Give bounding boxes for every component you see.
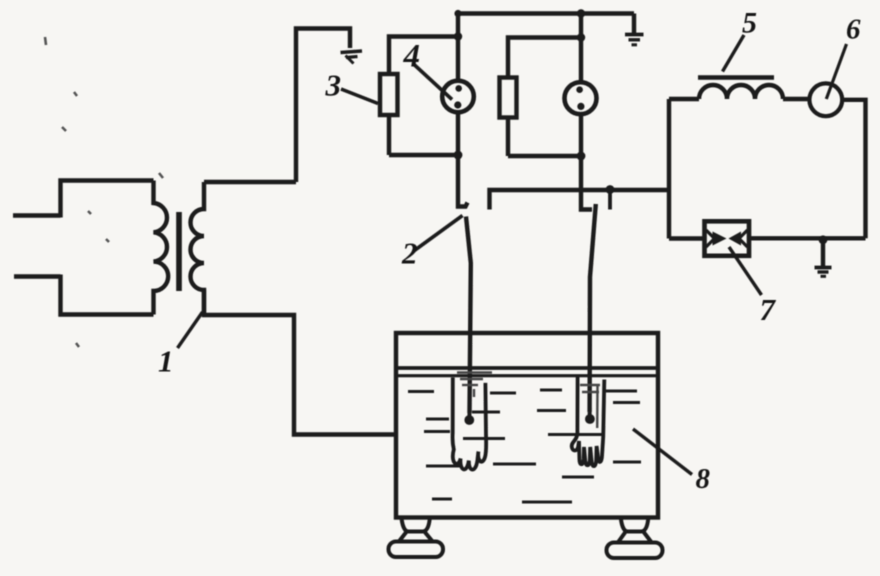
label 7 — [760, 292, 777, 327]
wire right-loop top left segment — [669, 97, 699, 101]
label pointer 3 — [341, 89, 378, 104]
resistor R2 — [500, 78, 517, 118]
resistor R1 (3) — [380, 74, 398, 115]
wire between coil and meter — [783, 97, 809, 101]
ground (transformer side) — [341, 51, 363, 64]
glove G1 (left) outline — [453, 378, 487, 470]
meter P1 (6) — [809, 83, 842, 116]
wire electrode in glove G2 — [588, 412, 592, 415]
svg-text:7: 7 — [760, 292, 777, 327]
svg-text:3: 3 — [325, 68, 342, 103]
label 4 — [403, 39, 421, 75]
switch S2 blade and wire to tank — [590, 204, 596, 412]
spark gap F1 arrows — [706, 230, 748, 247]
ground (right loop) — [815, 268, 832, 277]
glove G2 (right) outline — [572, 376, 605, 466]
spark gap F1 (7) box — [705, 221, 750, 256]
wire right-loop left side — [667, 99, 671, 239]
wire primary loop left/top/bottom — [61, 181, 154, 315]
tank (8) body — [396, 333, 658, 518]
tank foot right flare — [618, 531, 653, 544]
electrode dot G2 — [585, 414, 595, 424]
tank foot left dome — [402, 518, 430, 532]
label 1 — [158, 344, 174, 379]
lamp HL1 electrode dots — [454, 85, 462, 109]
wire right-loop bottom right segment — [749, 236, 866, 240]
label 2 — [401, 236, 418, 271]
wire R1 parallel loop — [389, 37, 458, 156]
inductor L1 (5) — [699, 85, 783, 99]
wire top-right ground stub — [632, 14, 636, 34]
label pointer 5 — [723, 35, 745, 72]
svg-text:1: 1 — [158, 344, 174, 379]
tank foot right base — [607, 543, 663, 559]
wire AC input stub bottom-left — [14, 274, 61, 278]
wire lamp branch 2 vertical — [579, 14, 583, 157]
wire measuring bus with hook contact — [490, 190, 670, 210]
junction dot ground tap — [819, 235, 828, 244]
transformer T1 core — [176, 212, 182, 291]
label 6 — [846, 14, 861, 46]
wire top bus — [458, 11, 634, 15]
label pointer 7 — [729, 247, 762, 295]
transformer T1 secondary winding — [191, 182, 205, 315]
tank foot left flare — [399, 531, 434, 543]
svg-text:5: 5 — [742, 7, 757, 40]
label pointer 8 — [633, 429, 692, 475]
wire ground stub right loop — [821, 240, 825, 266]
label pointer 6 — [826, 44, 846, 99]
stray scan specks — [45, 37, 163, 347]
inductor L1 core bar — [698, 75, 774, 80]
tank foot left base — [389, 542, 444, 558]
water ripple dashes — [408, 390, 641, 502]
svg-text:6: 6 — [846, 14, 861, 46]
label 8 — [696, 463, 711, 495]
label pointer 4 — [414, 64, 453, 100]
label 5 — [742, 7, 757, 40]
switch S2 contact stub — [608, 191, 612, 210]
wire secondary top lead to riser — [204, 180, 296, 184]
electrode dot G1 — [464, 415, 474, 425]
wire right-loop right side — [842, 100, 865, 239]
glove G1 cuff hatch — [457, 373, 492, 398]
lamp HL2 electrode dots — [576, 86, 584, 110]
wire lamp branch 1 vertical — [456, 14, 460, 156]
glove G2 cuff hatch — [580, 385, 600, 428]
svg-text:4: 4 — [403, 39, 421, 75]
wire R2 parallel loop — [508, 38, 581, 157]
switch S1 blade and wire to tank — [466, 217, 471, 414]
wire secondary bottom lead — [204, 290, 396, 435]
label 3 — [325, 68, 342, 103]
switch S1 alternate contact stub junction — [606, 185, 615, 194]
tank foot right dome — [621, 518, 649, 532]
wire AC input stub top-left — [13, 213, 61, 217]
lamp HL1 — [442, 81, 474, 113]
junction dots top section — [454, 9, 586, 160]
label pointer 1 — [178, 312, 203, 348]
svg-text:2: 2 — [401, 236, 418, 271]
wire right-loop bottom left segment — [669, 236, 705, 240]
switch S1 fixed lead — [458, 155, 468, 207]
lamp HL2 — [565, 82, 597, 114]
label pointer 2 — [413, 216, 463, 252]
svg-text:8: 8 — [696, 463, 711, 495]
wire grounded riser — [296, 29, 350, 183]
wire electrode in glove G1 — [467, 413, 471, 416]
transformer T1 primary winding — [154, 181, 169, 315]
ground (top right) — [625, 35, 644, 45]
switch S2 fixed lead — [581, 156, 592, 210]
tank water surface lines — [398, 368, 656, 376]
